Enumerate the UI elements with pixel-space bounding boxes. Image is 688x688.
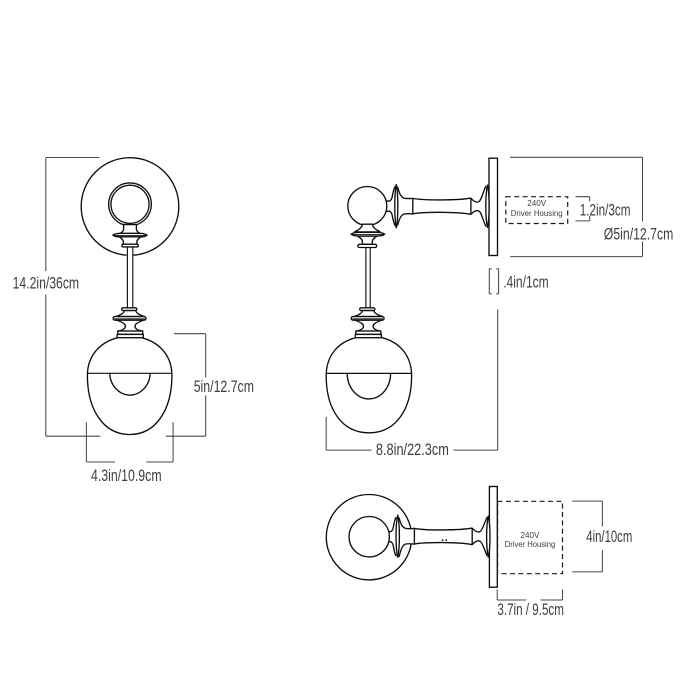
svg-text:1.2in/3cm: 1.2in/3cm xyxy=(580,201,631,219)
svg-text:8.8in/22.3cm: 8.8in/22.3cm xyxy=(376,441,449,459)
svg-text:4in/10cm: 4in/10cm xyxy=(586,528,632,546)
svg-text:5in/12.7cm: 5in/12.7cm xyxy=(194,378,254,396)
svg-text:Ø5in/12.7cm: Ø5in/12.7cm xyxy=(604,225,674,243)
svg-text:.4in/1cm: .4in/1cm xyxy=(503,273,549,291)
svg-text:3.7in / 9.5cm: 3.7in / 9.5cm xyxy=(497,601,564,619)
svg-text:240V: 240V xyxy=(527,198,546,208)
svg-text:4.3in/10.9cm: 4.3in/10.9cm xyxy=(91,467,162,485)
svg-text:Driver Housing: Driver Housing xyxy=(511,208,563,218)
svg-text:Driver Housing: Driver Housing xyxy=(505,539,556,549)
svg-text:14.2in/36cm: 14.2in/36cm xyxy=(13,275,80,293)
